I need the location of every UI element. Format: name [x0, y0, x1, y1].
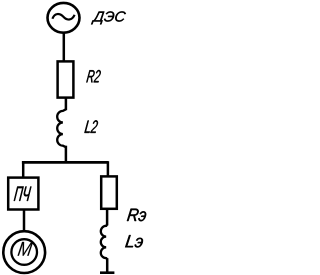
wire bus (horizontal): [22, 161, 108, 164]
label R2: [86, 70, 100, 82]
label M (motor): [18, 242, 34, 256]
wire generator to R2: [63, 32, 66, 62]
label ДЭС: [91, 11, 126, 24]
wire bus to ПЧ: [22, 161, 25, 178]
AC source ДЭС (circle): [48, 3, 80, 33]
inductor Lэ: [101, 224, 107, 259]
resistor Rэ: [101, 176, 117, 208]
sine symbol inside AC source: [52, 14, 74, 20]
label Rэ: [127, 209, 146, 222]
wire R2 to L2: [65, 97, 68, 110]
wire L2 to bus: [65, 146, 68, 164]
wire Lэ to terminal: [106, 258, 109, 272]
inductor L2: [57, 109, 66, 147]
frequency converter ПЧ (box): [8, 178, 38, 210]
wire ПЧ to motor: [23, 210, 26, 232]
label ПЧ: [14, 187, 32, 201]
motor M inner circle: [11, 239, 37, 265]
wire bus to Rэ: [107, 161, 110, 177]
resistor R2: [58, 61, 74, 97]
label Lэ: [125, 235, 143, 247]
terminal bar (end node): [100, 271, 114, 274]
label L2: [84, 120, 98, 133]
motor M outer circle: [3, 231, 45, 273]
wire Rэ to Lэ: [106, 209, 109, 226]
